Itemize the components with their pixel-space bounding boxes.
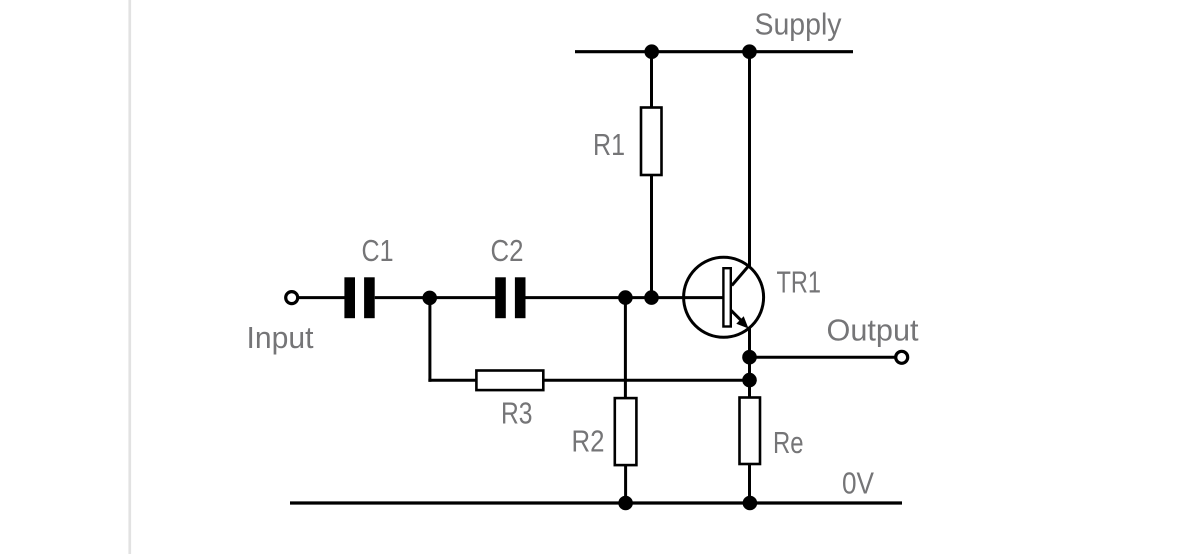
- wire collector from rail: [748, 52, 751, 267]
- wire R2 to 0V rail: [624, 465, 627, 503]
- TR1 collector diagonal: [732, 265, 750, 286]
- wire base node down to R2: [624, 298, 627, 399]
- svg-text:0V: 0V: [842, 466, 874, 501]
- wire bootstrap vertical from C1/C2 node: [428, 298, 431, 382]
- supply rail wire: [575, 50, 853, 53]
- node junction dot on rail at R1: [644, 44, 659, 59]
- wire C2 to base: [526, 296, 724, 299]
- wire input to C1: [299, 296, 345, 299]
- svg-text:C2: C2: [491, 233, 524, 268]
- svg-text:Input: Input: [247, 320, 314, 355]
- svg-text:R3: R3: [501, 396, 533, 431]
- wire R3 to emitter node: [543, 379, 749, 382]
- svg-text:R2: R2: [572, 424, 605, 459]
- svg-text:C1: C1: [362, 233, 394, 268]
- TR1 body circle: [684, 257, 764, 337]
- capacitor C2: [495, 277, 525, 318]
- svg-text:Output: Output: [827, 313, 919, 348]
- wire output: [750, 356, 895, 359]
- svg-text:Re: Re: [773, 425, 804, 460]
- node junction dot on rail at collector: [742, 44, 757, 59]
- 0V rail wire: [290, 501, 902, 504]
- resistor R2: [615, 398, 637, 465]
- capacitor C1: [344, 277, 374, 318]
- node dot base/R1: [644, 290, 659, 305]
- node dot R3/emitter: [742, 373, 757, 388]
- wire R1 top stub: [650, 52, 653, 109]
- resistor Re: [740, 398, 761, 465]
- left page border: [128, 0, 131, 554]
- wire Re to 0V rail: [748, 464, 751, 503]
- node dot output: [742, 350, 757, 365]
- resistor R3: [476, 371, 543, 391]
- wire R1 bottom to base node: [650, 175, 653, 298]
- node dot C1/C2 junction: [422, 291, 437, 306]
- wire emitter down from circle: [748, 328, 751, 399]
- svg-text:TR1: TR1: [777, 265, 822, 300]
- wire bootstrap horizontal to R3: [428, 379, 477, 382]
- TR1 emitter diagonal: [731, 310, 742, 321]
- transistor TR1: [684, 257, 764, 337]
- node dot base/R2: [618, 290, 633, 305]
- svg-text:R1: R1: [593, 127, 625, 162]
- output terminal: [896, 351, 908, 363]
- svg-text:Supply: Supply: [755, 7, 842, 42]
- TR1 base bar: [723, 268, 730, 326]
- resistor R1: [641, 108, 662, 176]
- wire C1 to C2: [375, 296, 496, 299]
- node dot R2/0V: [618, 496, 633, 511]
- input terminal: [286, 292, 298, 304]
- TR1 emitter arrowhead: [736, 316, 748, 328]
- node dot Re/0V: [743, 496, 758, 511]
